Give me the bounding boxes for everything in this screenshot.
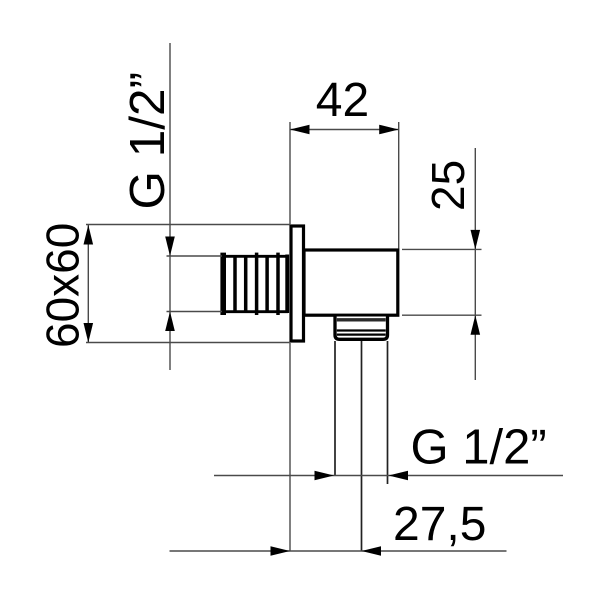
dimension G 1/2 inlet line xyxy=(169,43,171,370)
dimension 27,5 right arrowhead xyxy=(362,546,382,556)
dimension 25 bottom extension line xyxy=(402,314,482,316)
dimension G 1/2 outlet xyxy=(214,471,563,481)
outlet pipe right outline xyxy=(387,341,389,484)
svg-text:G 1/2”: G 1/2” xyxy=(411,421,547,475)
dimension 42 left extension line xyxy=(289,122,291,225)
dimension 42 line xyxy=(290,129,399,131)
svg-text:60x60: 60x60 xyxy=(37,223,89,348)
dimension 27,5 left arrowhead xyxy=(271,546,291,556)
dimension 27,5 label xyxy=(393,498,486,551)
dimension 25 line xyxy=(474,148,476,380)
dimension G 1/2 inlet xyxy=(165,43,222,370)
thread crest line 6 xyxy=(285,255,289,314)
dimension 27,5 line xyxy=(170,550,507,552)
nut outline xyxy=(335,317,388,340)
dimension 60x60 xyxy=(84,225,290,343)
dimension 25 top extension line xyxy=(402,248,482,250)
dimension 25 bottom arrowhead xyxy=(471,315,481,335)
dimension 42 right extension line xyxy=(398,122,400,249)
svg-text:25: 25 xyxy=(422,160,474,211)
svg-text:G 1/2”: G 1/2” xyxy=(120,72,175,210)
dimension G 1/2 outlet left arrowhead xyxy=(315,471,335,481)
valve body block xyxy=(304,250,398,315)
dimension G 1/2 inlet label xyxy=(120,72,175,210)
dimension G 1/2 inlet top arrowhead xyxy=(165,237,175,257)
thread crest line 5 xyxy=(276,253,280,315)
dimension 60x60 line xyxy=(87,225,89,343)
nut shoulder band xyxy=(337,318,386,321)
dimension 60x60 label xyxy=(37,223,89,348)
dimension G 1/2 inlet bottom arrowhead xyxy=(165,312,175,332)
nut groove line 2 xyxy=(337,334,386,336)
dimension 60x60 top arrowhead xyxy=(84,225,94,245)
dimension 42 left arrowhead xyxy=(290,125,310,135)
dimension G 1/2 inlet bottom extension line xyxy=(167,311,223,313)
svg-text:27,5: 27,5 xyxy=(393,498,486,551)
dimension 27,5 left extension line xyxy=(289,343,291,551)
svg-text:42: 42 xyxy=(316,74,369,127)
dimension 42 xyxy=(290,122,399,249)
thread bottom edge xyxy=(222,310,288,313)
outlet pipe centre line xyxy=(361,341,363,551)
thread crest line 3 xyxy=(255,253,259,315)
thread crest line 2 xyxy=(244,256,248,312)
thread crest line 1 xyxy=(233,256,237,312)
dimension 42 right arrowhead xyxy=(379,125,399,135)
dimension 60x60 bottom arrowhead xyxy=(84,323,94,343)
dimension G 1/2 outlet label xyxy=(411,421,547,475)
threaded inlet pipe G 1/2 xyxy=(222,253,288,315)
dimension 25 xyxy=(402,148,482,380)
dimension G 1/2 outlet line xyxy=(214,475,563,477)
nut groove line 1 xyxy=(337,329,386,331)
thread crest line 4 xyxy=(265,256,269,312)
wall flange plate 60x60 xyxy=(291,226,304,341)
outlet pipe left outline xyxy=(334,341,336,476)
dimension 25 label xyxy=(422,160,474,211)
dimension G 1/2 inlet top extension line xyxy=(167,255,223,257)
dimension 27,5 xyxy=(170,343,507,556)
dimension 60x60 top extension line xyxy=(86,224,290,226)
dimension 25 top arrowhead xyxy=(471,230,481,250)
dimension 42 label xyxy=(316,74,369,127)
thread left end face xyxy=(220,253,226,315)
thread top edge xyxy=(222,255,288,258)
outlet nut xyxy=(335,317,388,340)
dimension 60x60 bottom extension line xyxy=(86,342,290,344)
dimension G 1/2 outlet right arrowhead xyxy=(389,471,409,481)
